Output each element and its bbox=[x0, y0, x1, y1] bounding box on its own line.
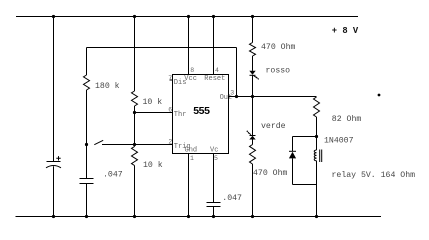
svg-text:8: 8 bbox=[190, 67, 194, 74]
resistor R1 180k bbox=[84, 75, 90, 90]
svg-text:180 k: 180 k bbox=[95, 81, 120, 91]
svg-text:10 k: 10 k bbox=[143, 97, 163, 107]
wire: LED branch from top rail bbox=[252, 17, 254, 43]
wire: 10k bottom to Thr node and down to Trig node bbox=[134, 106, 136, 145]
wire: 470 to red LED bbox=[252, 56, 254, 71]
wire: red LED to Out line bbox=[252, 75, 254, 96]
resistor R4 470 Ohm upper bbox=[250, 43, 256, 57]
wire: relay bottom branch bbox=[293, 184, 317, 186]
svg-text:.047: .047 bbox=[222, 194, 242, 203]
wire: Out line to green LED bbox=[252, 97, 254, 136]
svg-text:Gnd: Gnd bbox=[185, 147, 198, 155]
wire: relay top branch to diode bbox=[293, 136, 317, 138]
pin 4 Reset wire bbox=[213, 17, 215, 75]
wire: lower 470 to ground rail bbox=[252, 164, 254, 217]
svg-text:7: 7 bbox=[168, 75, 172, 82]
svg-text:+ 8 V: + 8 V bbox=[332, 26, 359, 36]
junction dots bbox=[52, 15, 55, 18]
svg-text:Thr: Thr bbox=[174, 111, 187, 119]
svg-text:3: 3 bbox=[230, 90, 234, 97]
LED D2 verde bbox=[250, 135, 256, 137]
capacitor C3 .047 on pin 5 bbox=[207, 203, 221, 207]
relay K1 coil bbox=[314, 150, 316, 161]
wire: green LED to lower 470 bbox=[252, 140, 254, 145]
wire: feedback wire from 180k top to right of IC bbox=[87, 47, 237, 49]
svg-text:1: 1 bbox=[190, 155, 194, 162]
wire: coil to bottom branch and ground bbox=[316, 161, 318, 217]
wire: diode branch down bbox=[292, 137, 294, 152]
svg-text:555: 555 bbox=[193, 105, 210, 117]
svg-text:470 Ohm: 470 Ohm bbox=[253, 168, 287, 178]
svg-text:6: 6 bbox=[168, 107, 172, 114]
svg-text:2: 2 bbox=[168, 139, 172, 146]
capacitor C2 .047 bbox=[80, 179, 94, 184]
svg-text:470 Ohm: 470 Ohm bbox=[261, 42, 295, 52]
svg-text:1N4007: 1N4007 bbox=[324, 137, 354, 146]
svg-text:verde: verde bbox=[261, 121, 286, 131]
svg-text:Vc: Vc bbox=[210, 147, 218, 155]
pin 7 Dis stub bbox=[170, 79, 173, 81]
switch S1 blade bbox=[94, 140, 103, 144]
diode D3 1N4007 bbox=[289, 150, 296, 152]
wire: Trig line from switch to pin 2 bbox=[102, 144, 173, 146]
wire: 180k bottom down through switch node to cap bbox=[86, 90, 88, 179]
pin 8 Vcc wire bbox=[188, 17, 190, 75]
stray dot bbox=[378, 94, 381, 97]
resistor R3 10k lower bbox=[134, 145, 136, 147]
wire: feedback vertical down to Out line bbox=[236, 48, 238, 97]
wire: 82 Ohm to relay node bbox=[316, 117, 318, 137]
resistor R2 10k bbox=[132, 91, 138, 106]
pin 1 Gnd wire bbox=[188, 154, 190, 217]
wire: bottom ground rail bbox=[16, 216, 382, 218]
wire: 10k branch from top rail bbox=[134, 17, 136, 92]
wire: Out line pin3 to 82 Ohm branch bbox=[229, 96, 317, 98]
svg-text:relay 5V. 164 Ohm: relay 5V. 164 Ohm bbox=[332, 170, 416, 180]
resistor R5 470 Ohm lower bbox=[250, 145, 256, 165]
wire: electrolytic cap branch upper segment bbox=[53, 17, 55, 162]
svg-text:82 Ohm: 82 Ohm bbox=[332, 114, 362, 124]
wire: Thr line from 10k node to pin 6 bbox=[135, 112, 173, 114]
svg-text:5: 5 bbox=[214, 155, 218, 162]
wire: electrolytic cap branch lower segment bbox=[53, 166, 55, 216]
wire: 180k branch from horizontal feed down to resistor bbox=[86, 48, 88, 76]
svg-text:rosso: rosso bbox=[266, 67, 291, 76]
svg-text:10 k: 10 k bbox=[143, 160, 163, 170]
svg-text:4: 4 bbox=[215, 67, 219, 74]
wire: top +8V rail bbox=[16, 16, 358, 18]
capacitor C1 electrolytic with + bbox=[47, 161, 61, 163]
op... IC U1 555 box bbox=[173, 75, 229, 154]
resistor R6 82 Ohm bbox=[314, 97, 320, 117]
svg-text:Reset: Reset bbox=[204, 75, 225, 83]
svg-text:.047: .047 bbox=[103, 171, 123, 180]
svg-text:Dis: Dis bbox=[174, 79, 187, 87]
wire: relay node down to coil bbox=[316, 137, 318, 151]
wire: lower 10k to ground rail bbox=[134, 166, 136, 217]
LED D1 rosso bbox=[249, 71, 255, 75]
pin 5 Vc wire bbox=[213, 154, 215, 203]
